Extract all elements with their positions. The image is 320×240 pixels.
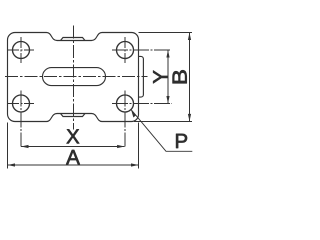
right side tab — [139, 56, 144, 97]
A dimension line — [8, 164, 139, 166]
bottom tab — [61, 114, 86, 117]
B bottom extension line — [134, 120, 192, 122]
center slot — [43, 68, 106, 86]
B dim bottom arrow — [188, 114, 191, 122]
crosshair hole bottom-right vertical extended to X dim — [124, 91, 126, 147]
hole top-left — [13, 42, 30, 59]
crosshair hole top-right horizontal extended to Y dim — [112, 49, 172, 51]
P leader arrow — [131, 110, 136, 118]
A dim right arrow — [131, 163, 139, 166]
P leader line — [131, 110, 192, 152]
A dimension right extension line — [138, 123, 140, 169]
hole top-right — [117, 42, 134, 59]
Y dimension line — [167, 50, 169, 104]
crosshair hole top-right vertical — [124, 37, 126, 63]
X dim right arrow — [117, 145, 125, 148]
top tab — [61, 38, 86, 41]
A dimension left extension line — [7, 123, 9, 169]
hole bottom-left — [13, 95, 30, 112]
crosshair hole top-left horizontal — [8, 49, 34, 51]
label B — [173, 70, 187, 83]
crosshair hole bottom-left horizontal — [8, 103, 34, 105]
crosshair hole top-left vertical — [20, 37, 22, 63]
X dimension line — [21, 146, 125, 148]
hole bottom-right — [117, 95, 134, 112]
B dim top arrow — [188, 33, 191, 41]
crosshair hole bottom-right horizontal extended to Y dim — [112, 103, 172, 105]
B top extension line — [139, 32, 193, 34]
A dim left arrow — [8, 163, 16, 166]
plate outline — [8, 33, 139, 122]
horizontal centerline — [5, 76, 148, 78]
X dim left arrow — [21, 145, 29, 148]
Y dim top arrow — [166, 50, 169, 58]
vertical centerline — [72, 26, 74, 130]
label Y — [153, 71, 167, 84]
label P — [176, 134, 187, 148]
label A — [66, 150, 80, 164]
Y dim bottom arrow — [166, 96, 169, 104]
B dimension line — [189, 33, 191, 122]
crosshair hole bottom-left vertical extended to X dim — [20, 91, 22, 147]
label X — [67, 129, 80, 143]
